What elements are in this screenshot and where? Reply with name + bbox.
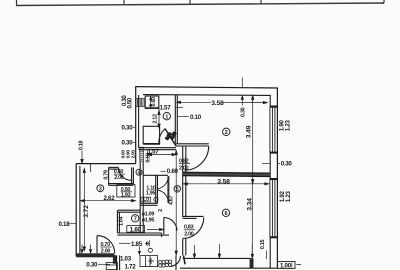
svg-text:0.18: 0.18 [79, 141, 85, 151]
kitchen bottom walls [117, 255, 185, 270]
svg-text:0.50: 0.50 [127, 97, 133, 108]
room 4 circle [136, 169, 142, 175]
room3 bottom door leaf [96, 236, 98, 254]
label 0.50/1.93 [117, 185, 135, 199]
dim 1.57 lower [148, 151, 176, 161]
kitchen door arc [170, 256, 180, 266]
svg-text:0.30: 0.30 [122, 140, 134, 147]
svg-text:0.10: 0.10 [190, 114, 202, 121]
svg-text:7: 7 [134, 217, 137, 223]
svg-text:0.79: 0.79 [103, 170, 109, 180]
svg-text:0.18: 0.18 [59, 221, 71, 228]
room 7 circle [132, 215, 139, 222]
bathroom wall corner tick [161, 233, 163, 237]
wall right outer [276, 88, 278, 269]
svg-text:2.00: 2.00 [184, 232, 194, 238]
svg-text:3.58: 3.58 [217, 178, 230, 185]
shaft box in hall [145, 96, 159, 108]
svg-text:1.00: 1.00 [280, 263, 292, 270]
svg-text:4: 4 [138, 171, 141, 177]
room 6 circle [222, 209, 229, 216]
wc room walls [140, 175, 168, 205]
label 0.70/2.00 room3 door [100, 242, 111, 255]
dim 1.85 kitchen [119, 240, 149, 254]
svg-text:1.0: 1.0 [142, 197, 149, 203]
svg-text:3.34: 3.34 [247, 198, 254, 211]
entry door arc [159, 129, 165, 143]
svg-text:3.58: 3.58 [211, 100, 224, 107]
svg-text:2: 2 [158, 209, 164, 212]
svg-text:6: 6 [224, 211, 227, 217]
symbol theta kitchen [148, 248, 152, 252]
svg-text:1.60: 1.60 [130, 226, 142, 233]
window lower right [270, 179, 278, 237]
svg-text:1.85: 1.85 [131, 241, 143, 248]
svg-text:4.67: 4.67 [169, 196, 175, 206]
kitchen sink box [140, 256, 158, 267]
window upper right [270, 107, 278, 153]
svg-text:1.03: 1.03 [120, 256, 132, 263]
svg-text:1: 1 [165, 115, 168, 121]
svg-text:1.04: 1.04 [118, 217, 124, 227]
svg-text:2.12: 2.12 [152, 114, 158, 124]
door hatch in left wall lower [140, 147, 144, 161]
dim 2.12 vertical [158, 111, 160, 129]
svg-text:3.49: 3.49 [246, 125, 253, 138]
threshold box bottom left [106, 263, 117, 270]
middle column right wall lower [183, 239, 186, 256]
room2 door arc [185, 146, 209, 170]
dim 0.18 top left [81, 151, 83, 164]
bathroom door arc lower [160, 218, 177, 236]
bathroom bottom wall [117, 233, 161, 235]
dim 2.62 [81, 200, 136, 202]
entry door leaf [165, 129, 176, 147]
dim 0.60 shaft vertical [150, 97, 152, 108]
label 1.60 [127, 226, 145, 233]
svg-text:8: 8 [146, 242, 149, 248]
middle column right wall upper [183, 146, 186, 217]
svg-text:2: 2 [225, 130, 228, 136]
room6 bottom wall inner [183, 257, 251, 259]
svg-text:1.93: 1.93 [121, 193, 131, 199]
flue hatch on left wall [136, 99, 145, 107]
dim arrows room6 bottom [193, 244, 252, 258]
left block left wall [76, 164, 80, 257]
dim 3.49 vertical [252, 96, 254, 184]
dim 3.72 vertical left [83, 169, 85, 251]
svg-text:2.00: 2.00 [114, 175, 124, 181]
room4 closet walls [109, 167, 134, 185]
svg-text:1.72: 1.72 [125, 264, 137, 270]
label 0.60/2.00 room4 [114, 169, 126, 181]
dim arrows room3 bottom [81, 245, 92, 254]
wc bowl [0, 0, 1, 1]
bathroom corridor double door arcs [158, 176, 169, 203]
wall right inner segments [269, 95, 271, 268]
svg-text:2.62: 2.62 [104, 195, 116, 202]
svg-text:0.30: 0.30 [240, 107, 246, 117]
room7 box walls [117, 210, 140, 233]
svg-text:0.30: 0.30 [122, 124, 134, 131]
svg-text:5: 5 [176, 187, 179, 193]
room 5 circle [174, 186, 180, 192]
wall top inner [143, 94, 270, 97]
room6 bottom wall outer [180, 267, 277, 269]
left block top wall [76, 163, 136, 165]
dim 4.67 vertical [175, 151, 177, 256]
label 0.83/2.00 room6 door [184, 225, 195, 238]
tick room3 top [89, 164, 91, 172]
room6 door arc [183, 217, 204, 238]
room6 bottom jog [250, 258, 254, 268]
svg-text:2.00: 2.00 [101, 249, 111, 255]
room2 door stub and leaf [176, 144, 209, 146]
label 0.82/2.00 room2 door [179, 159, 190, 172]
room 1 circle [163, 113, 170, 120]
room3 bottom door arc [97, 236, 115, 254]
table bottom line [16, 0, 384, 6]
room4 door arc [119, 168, 132, 181]
stove burners [159, 260, 172, 267]
dim 1.57 upper [146, 106, 160, 108]
wall between rooms 2 and 6 [183, 172, 271, 176]
svg-text:2.00: 2.00 [131, 150, 137, 159]
dim 3.34 vertical [251, 181, 253, 258]
dim 0.15 tick [266, 251, 268, 260]
svg-text:2.00: 2.00 [179, 166, 189, 172]
dim 1.60 bathroom [147, 228, 164, 230]
svg-text:0.30: 0.30 [86, 262, 98, 269]
dim 3.58 top [177, 78, 268, 106]
svg-text:0.10: 0.10 [146, 153, 152, 163]
svg-text:3: 3 [99, 187, 102, 193]
wall top outer [135, 87, 277, 88]
svg-text:0.15: 0.15 [260, 240, 266, 250]
svg-text:0.60: 0.60 [151, 97, 157, 107]
dim 3.58 bottom [183, 183, 268, 185]
wall left of upper block [136, 87, 139, 164]
closet box in hall [143, 126, 160, 144]
room6 door leaf [183, 216, 204, 218]
svg-text:1.57: 1.57 [160, 105, 172, 112]
room3 bottom wall [76, 253, 116, 263]
wall between hall and room 2 [175, 95, 177, 144]
svg-text:1.23: 1.23 [284, 120, 291, 132]
svg-text:ø1.95: ø1.95 [142, 218, 155, 224]
middle column left wall [140, 161, 143, 233]
svg-text:0.30: 0.30 [281, 161, 293, 168]
label 1.00 bottom right [278, 262, 295, 269]
hall bottom wall [139, 148, 176, 150]
svg-text:ø1.09: ø1.09 [142, 211, 155, 217]
svg-text:1.23: 1.23 [285, 191, 292, 203]
svg-text:1.95: 1.95 [146, 190, 156, 196]
svg-text:0.60: 0.60 [167, 168, 179, 175]
svg-text:3.72: 3.72 [83, 205, 90, 218]
label 1.0 boxed [141, 197, 158, 203]
room 2 circle [223, 128, 230, 135]
room 3 circle [97, 185, 104, 192]
